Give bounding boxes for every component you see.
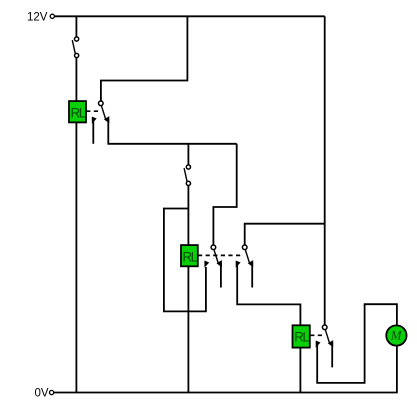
- wire K1 NC stub: [92, 120, 94, 144]
- wire 12V rail long drop to contact K4: [324, 16, 326, 325]
- wire K4 left terminal to motor loop: [317, 304, 397, 383]
- svg-text:12V: 12V: [27, 11, 48, 23]
- wire motor M1 to 0V rail: [396, 346, 398, 392]
- relay contact K3 (RL2, to RL3 coil): [236, 245, 254, 268]
- wire 12V rail to switch S1: [75, 16, 77, 37]
- dashed link RL2 to K2 and K3: [198, 254, 242, 256]
- relay coil RL1: [69, 101, 87, 122]
- svg-text:RL: RL: [294, 330, 310, 345]
- wire K2 NO terminal stub: [220, 263, 222, 288]
- wire switch S1 to relay coil RL1: [75, 58, 77, 102]
- wire node row down to switch S2: [187, 144, 189, 165]
- wire K4 NO terminal stub: [331, 343, 333, 367]
- switch S1: [72, 37, 78, 58]
- wire 12V drop to contact K3 common: [245, 224, 325, 245]
- node 12V terminal: [50, 14, 54, 18]
- relay contact K4 (driven by RL3): [316, 325, 334, 348]
- wire relay coil RL1 to 0V rail: [75, 122, 77, 392]
- svg-text:M: M: [390, 328, 403, 343]
- dashed link RL1 to K1: [86, 110, 99, 112]
- wire K1 to node row: [108, 143, 237, 145]
- wire K3 NO terminal stub: [251, 263, 253, 288]
- svg-text:RL: RL: [182, 249, 198, 264]
- relay contact K2 (RL2, latch): [204, 245, 222, 268]
- wire switch S2 to relay coil RL2: [187, 186, 189, 246]
- relay contact K1 (driven by RL1): [92, 101, 110, 124]
- wire 12V rail down to contact K1 common: [101, 16, 187, 101]
- svg-text:0V: 0V: [35, 388, 49, 400]
- motor M1: [386, 325, 406, 345]
- dashed link RL3 to K4: [310, 334, 323, 336]
- wire node row corner down to contact K2 common: [213, 144, 236, 245]
- wire 0V rail: [54, 392, 398, 394]
- wire relay coil RL2 to 0V rail: [187, 266, 189, 392]
- switch S2: [184, 165, 190, 186]
- wire latch branch left of RL2: [164, 209, 206, 312]
- wire 12V rail: [55, 15, 325, 17]
- relay coil RL3: [293, 325, 311, 347]
- wire K3 left terminal to RL3 coil: [237, 263, 300, 325]
- node 0V terminal: [50, 390, 54, 394]
- wire relay coil RL3 to 0V rail: [299, 348, 301, 393]
- relay coil RL2: [181, 245, 199, 266]
- svg-text:RL: RL: [70, 105, 86, 120]
- wire K1 NO terminal down: [107, 119, 109, 144]
